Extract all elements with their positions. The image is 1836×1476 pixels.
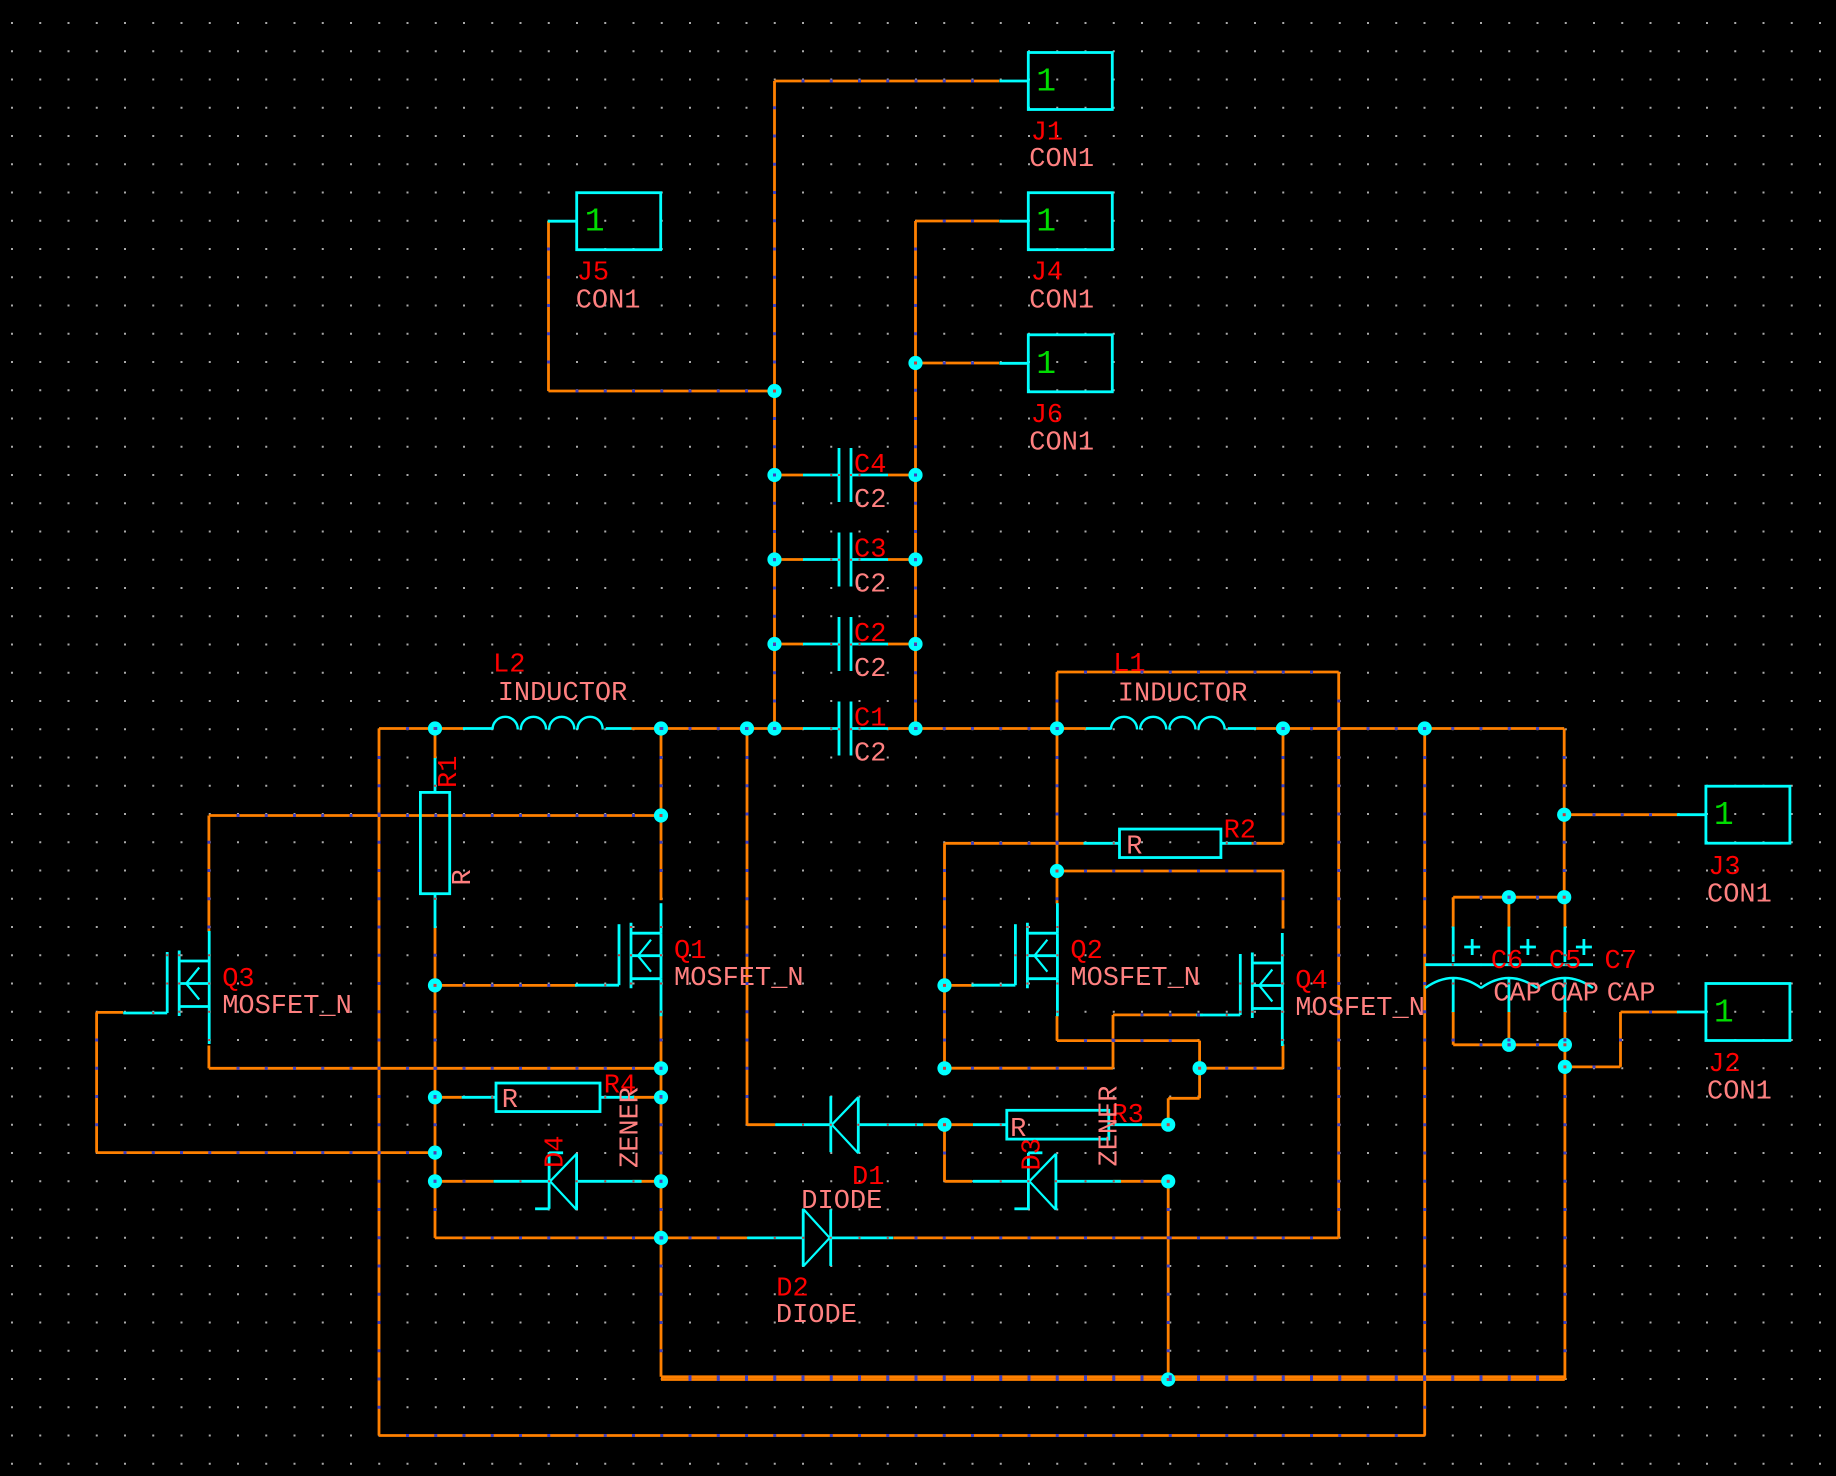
junction at (1508.9,1044.8) [1502,1038,1516,1052]
connector J1 [999,53,1112,110]
svg-text:R: R [502,1086,518,1116]
wire R1 top [434,729,437,793]
label Q3 refdes [222,965,254,995]
wire Q4 gate net [945,1015,1204,1068]
junction at (915.5,728.5) [908,721,922,735]
svg-text:C4: C4 [854,451,886,481]
label D4 refdes [542,1136,572,1168]
wire D4 row [435,1180,661,1183]
label C7 value CAP [1607,980,1656,1010]
junction at (661,1068.3) [654,1061,668,1075]
wire Q2 source net [1057,1016,1200,1068]
junction at (1424.7,728.5) [1418,721,1432,735]
svg-text:C2: C2 [854,740,886,770]
connector J6 [999,335,1112,392]
pin number 1 of J6 [1036,346,1056,383]
label C5 value CAP [1550,980,1599,1010]
svg-text:R2: R2 [1224,816,1256,846]
svg-text:J6: J6 [1031,401,1063,431]
wire Q3 drain net [209,816,661,932]
label L1 refdes [1113,650,1145,680]
pin number 1 of J4 [1036,204,1056,241]
wire col661 upper [660,729,663,901]
svg-text:CON1: CON1 [1029,286,1094,316]
junction at (915.5,475) [908,468,922,482]
wire J2 net [1565,1012,1678,1067]
label R3 refdes [1111,1101,1143,1131]
wire Q2 drain net [1057,729,1283,929]
label D1 refdes [852,1163,884,1193]
transistor Q2 [971,903,1057,1016]
svg-text:D4: D4 [542,1136,572,1168]
junction at (661,1237.9) [654,1231,668,1245]
zener diode D3 [973,1153,1121,1210]
svg-text:C2: C2 [854,486,886,516]
capacitor C6 [1425,927,1481,1012]
svg-text:CON1: CON1 [1029,429,1094,459]
svg-text:1: 1 [1714,797,1734,834]
label C6 value CAP [1493,980,1542,1010]
svg-text:CON1: CON1 [1029,145,1094,175]
label C7 refdes [1605,947,1637,977]
junction at (774.5,475) [767,468,781,482]
label J5 value CON1 [576,286,641,316]
resistor R4 [462,1083,634,1112]
pin number 1 of J1 [1036,64,1056,101]
svg-text:CON1: CON1 [1707,1078,1772,1108]
label D1 value DIODE [801,1187,882,1217]
label D3 refdes [1019,1138,1049,1170]
wire bottom rail 1435 [379,729,1425,1436]
wire caps bottom rail [1453,1043,1565,1046]
wire R3 leads [945,1123,1169,1126]
junction at (1564.9,1066.9) [1558,1060,1572,1074]
label R3 value R [1010,1115,1026,1145]
label J2 refdes [1708,1050,1740,1080]
junction at (1168.2,1181.3) [1161,1174,1175,1188]
junction at (944.5,985.4) [937,978,951,992]
label R1 refdes [435,756,465,788]
pin number 1 of J2 [1714,995,1734,1032]
svg-text:C3: C3 [854,536,886,566]
label C2 value C2 [854,655,886,685]
svg-text:C2: C2 [854,620,886,650]
label L1 value INDUCTOR [1118,680,1248,710]
junction at (747,728.5) [740,721,754,735]
label C1 refdes [854,705,886,735]
junction at (435,1097.3) [428,1090,442,1104]
svg-text:J5: J5 [577,259,609,289]
junction at (1168.2,1124.7) [1161,1118,1175,1132]
svg-text:CAP: CAP [1607,980,1656,1010]
zener diode D4 [494,1153,642,1210]
svg-text:MOSFET_N: MOSFET_N [1070,964,1200,994]
svg-text:C1: C1 [854,705,886,735]
svg-text:J2: J2 [1708,1050,1740,1080]
wire J1 net [775,81,1000,391]
label Q1 refdes [674,937,706,967]
label J6 value CON1 [1029,429,1094,459]
label Q2 refdes [1070,937,1102,967]
wire C7 stubs [1564,897,1567,1045]
label C1 value C2 [854,740,886,770]
wire col435 lower [434,985,437,1238]
transistor Q3 [123,931,209,1044]
junction at (1564.2,814.7) [1557,808,1571,822]
transistor Q1 [575,903,661,1016]
wire Q1 gate net [435,984,577,987]
wire D3 row [945,1125,1169,1182]
label J2 value CON1 [1707,1078,1772,1108]
pin number 1 of J5 [585,204,605,241]
label D2 value DIODE [776,1301,857,1331]
label C6 refdes [1491,947,1523,977]
wire D1 right [923,1123,944,1126]
label L2 value INDUCTOR [498,679,628,709]
svg-text:Q3: Q3 [222,965,254,995]
junction at (661,728.5) [654,721,668,735]
junction at (944.5,1068.3) [937,1061,951,1075]
wire L1 loop top [1057,672,1339,729]
wire Q4 source net [1200,1044,1283,1068]
inductor L1 [1111,717,1225,730]
junction at (661,1097.3) [654,1090,668,1104]
capacitor C2 [839,617,851,671]
junction at (435,985.4) [428,978,442,992]
wire Q2 gate net [945,985,975,1068]
wire R2 net [945,843,1284,985]
capacitor C3 [839,533,851,587]
svg-text:INDUCTOR: INDUCTOR [498,679,628,709]
pin number 1 of J3 [1714,797,1734,834]
label C2 refdes [854,620,886,650]
wire bottom rail 1379 [661,1378,1565,1381]
wire C5 stubs [1508,897,1511,1045]
junction at (1168.2,1379.5) [1161,1372,1175,1386]
junction at (435,1181.3) [428,1174,442,1188]
svg-text:DIODE: DIODE [776,1301,857,1331]
resistor R2 [1084,829,1252,858]
wire J5 net [549,221,775,391]
wire main bus [379,727,1564,730]
svg-text:R: R [449,869,479,885]
junction at (1564.9,1044.8) [1558,1038,1572,1052]
svg-text:C7: C7 [1605,947,1637,977]
capacitor C1 [839,702,851,756]
wire C6 stubs [1452,897,1455,1045]
svg-text:CAP: CAP [1493,980,1542,1010]
svg-text:Q2: Q2 [1070,937,1102,967]
svg-text:1: 1 [1036,346,1056,383]
label C3 value C2 [854,571,886,601]
diode D2 [747,1209,893,1267]
svg-text:C2: C2 [854,571,886,601]
wire cap bus right [914,363,917,729]
junction at (915.5,644) [908,637,922,651]
svg-text:D3: D3 [1019,1138,1049,1170]
wire J3 net [1564,729,1677,898]
junction at (1283,728.5) [1276,721,1290,735]
label J4 refdes [1031,259,1063,289]
connector J5 [548,193,661,250]
svg-text:1: 1 [1036,64,1056,101]
svg-text:R1: R1 [435,756,465,788]
wire R1 bottom [434,894,437,986]
capacitor C5 [1481,927,1537,1012]
svg-text:L1: L1 [1113,650,1145,680]
label D4 value ZENER [616,1087,646,1168]
junction at (1564.2,897.2) [1557,890,1571,904]
label R1 value R [449,869,479,885]
inductor L2 [493,717,603,730]
label R2 value R [1126,832,1142,862]
resistor R3 [973,1110,1142,1139]
wire col1564 drop [1564,1067,1567,1380]
junction at (1199.6,1068.2) [1193,1061,1207,1075]
svg-text:ZENER: ZENER [616,1087,646,1168]
wire R4 row [435,1096,661,1099]
label C4 refdes [854,451,886,481]
label L2 refdes [493,651,525,681]
capacitor C7 [1537,927,1593,1012]
label J4 value CON1 [1029,286,1094,316]
diode D1 [775,1096,923,1153]
svg-text:ZENER: ZENER [1096,1085,1126,1166]
svg-text:R: R [1126,832,1142,862]
junction at (915.5,363) [908,356,922,370]
svg-text:DIODE: DIODE [801,1187,882,1217]
wire cap row y644 [775,643,916,646]
junction at (944.5,1124.7) [937,1118,951,1132]
svg-text:C6: C6 [1491,947,1523,977]
transistor Q4 [1196,933,1282,1046]
junction at (1057,871) [1050,864,1064,878]
wire D2 row [435,672,1339,1238]
svg-text:C5: C5 [1549,947,1581,977]
junction at (435,728.5) [428,721,442,735]
label J5 refdes [577,259,609,289]
label R4 refdes [604,1072,636,1102]
junction at (774.5,391) [767,384,781,398]
junction at (661,1181.3) [654,1174,668,1188]
connector J2 [1677,984,1790,1041]
connector J3 [1677,786,1790,843]
label C3 refdes [854,536,886,566]
label Q4 refdes [1295,967,1327,997]
svg-text:MOSFET_N: MOSFET_N [1295,994,1425,1024]
label C5 refdes [1549,947,1581,977]
wire col747 D1 [747,729,775,1125]
junction at (774.5,559.5) [767,552,781,566]
connector J4 [999,193,1112,250]
svg-text:Q4: Q4 [1295,967,1327,997]
svg-text:C2: C2 [854,655,886,685]
svg-text:MOSFET_N: MOSFET_N [222,992,352,1022]
svg-text:MOSFET_N: MOSFET_N [674,964,804,994]
label J6 refdes [1031,401,1063,431]
wire J4 net [916,221,1000,363]
wire cap bus left [773,391,776,729]
label R2 refdes [1224,816,1256,846]
wire Q3 gate net [97,1012,435,1152]
junction at (1057,728.5) [1050,721,1064,735]
svg-text:1: 1 [1714,995,1734,1032]
wire bus-left drop [378,729,381,1436]
wire col661 lower [661,1010,1565,1377]
label C4 value C2 [854,486,886,516]
svg-text:Q1: Q1 [674,937,706,967]
resistor R1 [420,792,449,893]
svg-text:1: 1 [585,204,605,241]
svg-text:J3: J3 [1708,853,1740,883]
label J3 refdes [1708,853,1740,883]
wire Q3 source net [209,1046,661,1069]
junction at (1508.9,897.2) [1502,890,1516,904]
wire caps top rail [1453,896,1564,899]
junction at (915.5,559.5) [908,552,922,566]
label Q3 value MOSFET_N [222,992,352,1022]
svg-text:1: 1 [1036,204,1056,241]
wire cap row y559.5 [775,558,916,561]
svg-text:CAP: CAP [1550,980,1599,1010]
svg-text:CON1: CON1 [576,286,641,316]
label Q4 value MOSFET_N [1295,994,1425,1024]
wire col1168 drop [1167,1181,1170,1379]
grid xor marks on wires [95,80,1652,1438]
label Q2 value MOSFET_N [1070,964,1200,994]
label D2 refdes [776,1275,808,1305]
svg-text:L2: L2 [493,651,525,681]
capacitor C4 [839,448,851,502]
label D3 value ZENER [1096,1085,1126,1166]
wire cap row y475 [775,474,916,477]
svg-text:D2: D2 [776,1275,808,1305]
label Q1 value MOSFET_N [674,964,804,994]
junction at (661,815.5) [654,808,668,822]
wire L1 right drop [1282,729,1285,844]
junction at (435,1152.6) [428,1146,442,1160]
label J3 value CON1 [1707,881,1772,911]
wire J6 net [916,362,1000,365]
label J1 value CON1 [1029,145,1094,175]
label J1 refdes [1031,119,1063,149]
svg-text:J4: J4 [1031,259,1063,289]
junction at (774.5,728.5) [767,721,781,735]
svg-text:CON1: CON1 [1707,881,1772,911]
wire R3 jog [1168,1068,1199,1125]
junction at (774.5,644) [767,637,781,651]
label R4 value R [502,1086,518,1116]
svg-text:INDUCTOR: INDUCTOR [1118,680,1248,710]
